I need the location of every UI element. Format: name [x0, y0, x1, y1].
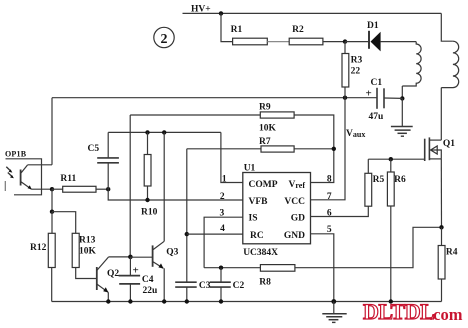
svg-text:R11: R11 — [60, 174, 76, 184]
node rail C2 — [219, 299, 223, 303]
resistor R4 — [438, 227, 445, 301]
svg-text:6: 6 — [327, 209, 332, 219]
svg-text:7: 7 — [327, 192, 332, 202]
svg-text:IS: IS — [249, 214, 258, 224]
wire ground rail (bottom) — [52, 301, 442, 303]
node R12/R13 — [50, 210, 54, 214]
ground (main rail) — [322, 302, 346, 323]
resistor R8 — [260, 265, 295, 272]
transistor Q1 (MOSFET) — [425, 137, 442, 161]
node rail pin5 ground — [331, 299, 336, 304]
svg-text:2: 2 — [220, 192, 225, 202]
resistor R10 — [144, 132, 151, 200]
svg-text:OP1B: OP1B — [5, 150, 27, 159]
resistor R11 — [52, 186, 108, 192]
node rail C3 — [185, 299, 189, 303]
svg-text:GND: GND — [284, 231, 305, 241]
node rail R6 — [389, 299, 393, 303]
logo DLTDL.com — [363, 299, 463, 324]
svg-text:R13: R13 — [79, 236, 96, 246]
wire winding bottom to C1 node — [401, 86, 403, 98]
svg-text:R10: R10 — [141, 208, 158, 218]
node rail Q3 emitter — [162, 299, 166, 303]
svg-text:UC384X: UC384X — [243, 248, 278, 258]
wire Vaux vertical to pin 7 — [311, 98, 346, 200]
wire Q3 collector riser — [163, 132, 165, 241]
svg-text:C3: C3 — [199, 281, 211, 291]
svg-text:R8: R8 — [259, 278, 271, 288]
node C1/ground junction — [400, 96, 404, 100]
node R7/R9 riser join — [332, 147, 336, 151]
resistor R7 — [187, 146, 334, 152]
svg-text:Q3: Q3 — [166, 248, 178, 258]
wire COMP riser to pin 1 — [221, 132, 243, 182]
wire Q1 source down to node — [440, 159, 442, 227]
node pin4 line joins riser — [185, 232, 189, 236]
svg-text:22: 22 — [351, 67, 361, 77]
transformer primary winding — [402, 42, 421, 86]
node Q3 collector riser top — [162, 130, 166, 134]
wire R9 left riser to Q3 base node — [129, 115, 131, 257]
svg-text:COMP: COMP — [249, 180, 278, 190]
capacitor C1 — [345, 88, 402, 109]
wire R1 to R2 (faint) — [267, 41, 289, 43]
svg-text:DLTDL: DLTDL — [363, 299, 434, 324]
svg-text:+: + — [133, 265, 139, 277]
svg-text:R7: R7 — [259, 137, 271, 147]
svg-text:R5: R5 — [373, 175, 385, 185]
wire left feed vertical (opto collector riser) — [51, 98, 53, 165]
wire node to D1 cathode — [345, 41, 369, 43]
svg-text:5: 5 — [327, 225, 332, 235]
wire VFB line (pin 2) — [108, 189, 243, 200]
node Q1 source / R4 / sense — [439, 225, 443, 229]
svg-text:R3: R3 — [351, 56, 363, 66]
resistor R13 — [52, 212, 97, 279]
svg-text:10K: 10K — [259, 124, 277, 134]
svg-text:+: + — [366, 88, 372, 100]
wire pin 4 (RC) — [187, 233, 243, 235]
diode D1 — [369, 31, 381, 52]
ground (transformer/C1) — [391, 98, 413, 136]
wire secondary to Q1 drain — [440, 88, 442, 141]
node R11 right / C5 / VFB — [106, 187, 110, 191]
svg-text:HV+: HV+ — [191, 5, 211, 15]
svg-text:2: 2 — [161, 32, 168, 47]
svg-text:47u: 47u — [369, 112, 385, 122]
optocoupler OP1B — [5, 159, 52, 195]
svg-text:3: 3 — [220, 209, 225, 219]
resistor R3 — [342, 42, 349, 98]
capacitor C4 — [119, 257, 141, 302]
svg-text:D1: D1 — [367, 21, 379, 31]
wire COMP net horizontal (y=132.4) — [108, 131, 221, 133]
resistor R2 — [289, 38, 323, 45]
svg-text:4: 4 — [220, 224, 225, 234]
wire top rail to secondary winding — [441, 13, 453, 41]
svg-text:U1: U1 — [244, 164, 256, 174]
svg-text:Q2: Q2 — [107, 269, 119, 279]
svg-text:1: 1 — [222, 175, 227, 185]
svg-text:R6: R6 — [394, 175, 406, 185]
svg-text:C2: C2 — [233, 281, 245, 291]
node rail Q2 emitter — [106, 299, 110, 303]
resistor R1 — [233, 38, 268, 45]
node R6 top — [389, 157, 393, 161]
node R10 top — [145, 130, 149, 134]
node rail C4 — [128, 299, 132, 303]
capacitor C2 — [210, 268, 231, 302]
node C2 top — [219, 266, 223, 270]
wire pin 3 (IS) — [204, 217, 243, 268]
svg-text:R12: R12 — [30, 243, 47, 253]
node Vaux tap — [343, 96, 347, 100]
svg-text:10K: 10K — [79, 247, 97, 257]
svg-text:R1: R1 — [231, 25, 243, 35]
capacitor C3 — [175, 282, 197, 301]
svg-text:C1: C1 — [371, 78, 383, 88]
svg-text:C4: C4 — [142, 275, 154, 285]
transistor Q2 — [97, 257, 131, 302]
transistor Q3 — [130, 241, 164, 301]
transformer secondary winding — [441, 41, 458, 87]
svg-text:VFB: VFB — [249, 197, 269, 207]
resistor R9 — [130, 112, 334, 183]
wire IS sense line (y=267.7) — [204, 267, 260, 269]
wire HV+ rail — [183, 12, 442, 14]
svg-text:Vref: Vref — [289, 180, 306, 190]
svg-text:GD: GD — [291, 214, 305, 224]
svg-text:8: 8 — [327, 175, 332, 185]
wire R7 left riser down to C3 — [186, 149, 188, 282]
wire Vaux feed line (y=97.7) — [52, 97, 345, 99]
node HV+ junction — [219, 11, 223, 15]
svg-text:RC: RC — [250, 231, 264, 241]
node R10 bottom on VFB line — [145, 198, 149, 202]
resistor R5 — [365, 159, 372, 206]
svg-text:R9: R9 — [259, 103, 271, 113]
wire HV+ to R1 — [221, 13, 233, 41]
resistor R12 — [48, 212, 55, 302]
op-amp U1 chip body UC384X — [243, 173, 311, 244]
wire R8 right to Q1 source column — [295, 227, 442, 267]
node R2/R3/D1 — [343, 39, 347, 43]
capacitor C5 — [97, 132, 119, 189]
svg-text:Vaux: Vaux — [346, 129, 365, 139]
wire gate line — [368, 158, 424, 160]
wire pin 6 (GD) to R5 — [311, 206, 369, 216]
wire emitter node down to R12/R13 node — [51, 189, 53, 212]
svg-text:VCC: VCC — [284, 197, 305, 207]
node Q3 base / Q2 collector / C4 — [128, 255, 133, 260]
svg-text:.com: .com — [429, 305, 463, 324]
resistor R6 — [387, 159, 394, 301]
svg-text:22u: 22u — [143, 286, 159, 296]
wire R2 to node — [323, 41, 345, 43]
wire D1 anode to primary winding — [381, 41, 417, 43]
svg-text:R4: R4 — [446, 248, 458, 258]
svg-text:Q1: Q1 — [443, 139, 455, 149]
wire pin 5 (GND) to ground — [311, 234, 334, 302]
svg-text:C5: C5 — [88, 144, 100, 154]
svg-text:R2: R2 — [292, 25, 304, 35]
node opto emitter / R11 — [50, 187, 54, 191]
figure number 2 — [154, 27, 174, 47]
